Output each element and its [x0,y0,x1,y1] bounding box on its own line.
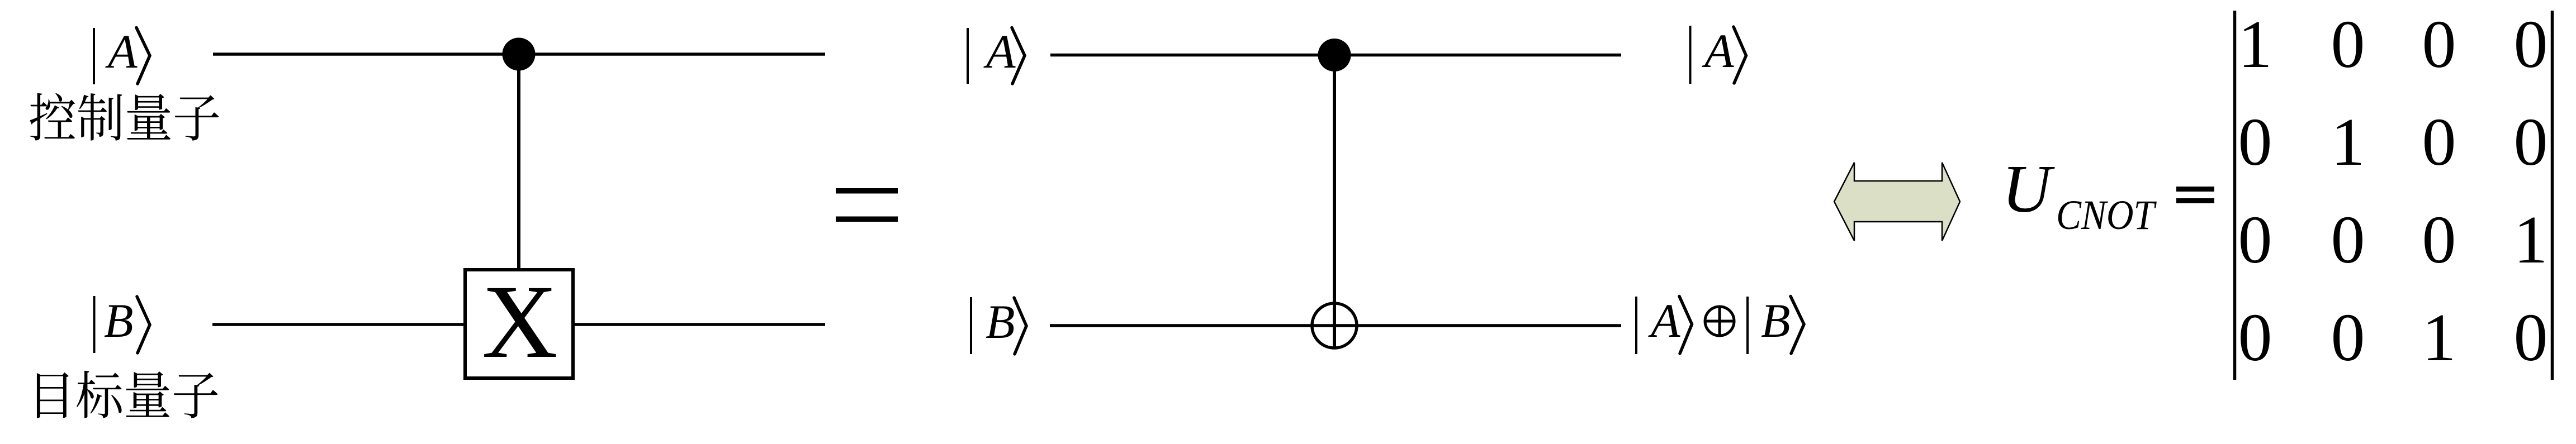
wire: vertical control link to X gate [517,54,520,270]
svg-text:0: 0 [2238,104,2272,180]
node |B> target input label (left circuit) [94,294,150,353]
caption glyph 目 [37,373,69,418]
svg-text:0: 0 [2238,202,2272,278]
svg-text:B: B [986,295,1015,348]
svg-text:0: 0 [2331,300,2365,375]
caption: target qubit 目标量子 [37,371,217,418]
svg-text:A: A [1702,24,1734,78]
wire: vertical control link to XOR target [1333,55,1336,348]
control dot (middle circuit) [1318,39,1351,71]
caption glyph 量 [126,371,169,417]
node |B> target input label (middle circuit) [971,295,1026,354]
caption: control qubit 控制量子 [30,93,219,141]
wire: top control line (left circuit) [213,52,825,56]
svg-text:0: 0 [2331,7,2365,82]
svg-text:1: 1 [2422,300,2456,375]
svg-text:A: A [1648,294,1680,347]
caption glyph 子 [174,373,218,418]
matrix right bar [2551,11,2554,380]
node |A> control input label (left circuit) [94,25,150,84]
svg-text:CNOT: CNOT [2056,192,2157,238]
matrix left bar [2233,11,2237,380]
double-headed arrow (equivalence) [1834,163,1960,241]
svg-text:1: 1 [2331,104,2365,180]
node |A> output label (middle circuit top right) [1690,24,1746,84]
caption glyph 制 [78,93,122,141]
caption glyph 控 [30,93,75,141]
svg-text:0: 0 [2514,300,2548,375]
node |A> control input label (middle circuit) [968,25,1025,84]
X gate box [465,270,573,378]
svg-text:1: 1 [2514,202,2548,278]
svg-text:0: 0 [2514,104,2548,180]
svg-text:B: B [1761,294,1791,347]
equals sign between circuits [836,188,898,222]
svg-text:A: A [105,25,138,78]
svg-text:0: 0 [2422,7,2456,82]
equals sign before matrix [2176,187,2214,203]
caption glyph 量 [127,94,171,140]
wire: bottom target line (middle circuit) [1050,324,1621,327]
wire: top control line (middle circuit) [1050,54,1621,57]
node |A>xor|B> output label (middle circuit bottom right) [1636,294,1804,354]
svg-text:0: 0 [2422,202,2456,278]
wire: bottom target line right segment (left circuit) [573,323,825,326]
svg-text:1: 1 [2238,7,2272,82]
svg-text:0: 0 [2422,104,2456,180]
wire: bottom target line left segment (left circuit) [212,323,465,326]
svg-text:0: 0 [2514,7,2548,82]
caption glyph 标 [77,371,122,418]
control dot (left circuit) [503,38,536,71]
svg-text:B: B [104,294,134,347]
svg-text:X: X [482,263,558,380]
svg-text:0: 0 [2238,300,2272,375]
svg-text:U: U [2002,151,2055,227]
caption glyph 子 [175,95,219,140]
svg-text:0: 0 [2331,202,2365,278]
svg-text:A: A [983,25,1016,78]
XOR target circle (CNOT target) [1312,303,1357,348]
